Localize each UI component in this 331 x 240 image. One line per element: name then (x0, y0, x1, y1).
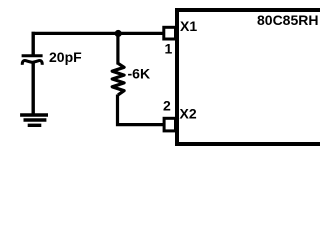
IC U1 80C85RH outline (177, 10, 320, 144)
svg-text:2: 2 (163, 98, 171, 114)
junction node at resistor/top wire (115, 30, 122, 37)
svg-text:80C85RH: 80C85RH (257, 12, 318, 28)
wire: junction to resistor top (116, 33, 119, 64)
pin pad X1 (pin 1) (164, 27, 176, 39)
svg-text:1: 1 (165, 40, 173, 56)
svg-text:X1: X1 (180, 18, 197, 34)
wire: resistor bottom to X2 (118, 95, 165, 125)
svg-text:X2: X2 (180, 106, 197, 122)
capacitor C1 20pF top plate (22, 54, 43, 57)
pin pad X2 (pin 2) (164, 118, 175, 131)
resistor R1 zigzag (112, 63, 124, 95)
ground symbol (20, 115, 48, 125)
wire: capacitor to ground (32, 63, 35, 116)
svg-text:-6K: -6K (128, 65, 151, 81)
wire: capacitor top stem (32, 32, 35, 55)
wire: top net from capacitor to X1 (32, 32, 165, 35)
svg-text:20pF: 20pF (49, 49, 82, 65)
capacitor C1 curved plate (22, 60, 42, 64)
